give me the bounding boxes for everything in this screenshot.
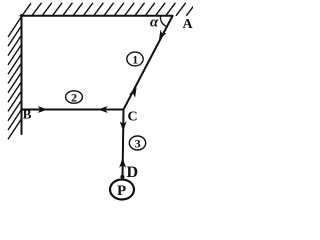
svg-text:D: D (127, 164, 139, 181)
weight P (circle with P) (110, 180, 134, 200)
svg-text:B: B (23, 107, 32, 122)
rod 3 (C to D) (123, 110, 124, 180)
arrow on rod 2 near C (pointing toward B) (98, 106, 108, 113)
svg-text:1: 1 (132, 53, 138, 67)
label (1) circled (127, 52, 143, 66)
rod 2 (B to C) (22, 109, 124, 111)
rod 1 (A to C) (124, 16, 173, 110)
arrow on rod 2 near B (pointing toward C) (38, 106, 48, 113)
ceiling hatching (22, 3, 197, 17)
svg-text:A: A (183, 17, 194, 32)
svg-text:α: α (150, 15, 159, 31)
arrow on rod 1 near A (pointing toward C) (159, 30, 167, 40)
svg-text:P: P (117, 183, 126, 199)
arrow on rod 3 near C (pointing down) (120, 121, 127, 131)
wall hatching (8, 17, 22, 140)
wall (left support line) (21, 15, 23, 134)
svg-text:3: 3 (135, 137, 141, 151)
arrow on rod 3 near D (pointing up) (119, 158, 126, 168)
node D junction dot (120, 175, 124, 179)
arrow on rod 1 near C (pointing toward A) (129, 88, 137, 98)
angle alpha arc at A (160, 16, 166, 27)
svg-text:2: 2 (71, 91, 77, 105)
label (3) circled (129, 136, 145, 151)
svg-text:C: C (128, 110, 138, 125)
label (2) circled (66, 91, 83, 105)
ceiling line (21, 15, 173, 17)
